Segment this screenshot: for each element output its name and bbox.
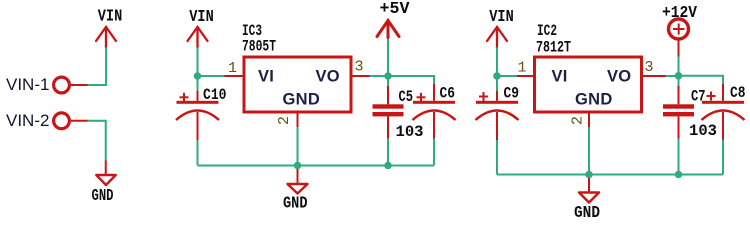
svg-text:3: 3	[355, 59, 364, 76]
svg-text:VIN: VIN	[189, 7, 214, 26]
capacitor C7 bottom plate	[663, 112, 694, 116]
svg-text:2: 2	[570, 116, 587, 125]
svg-text:103: 103	[396, 123, 424, 141]
capacitor C8 polarity plus	[707, 92, 716, 101]
wire IC2 pin 2 to ground rail	[588, 127, 590, 175]
svg-text:VO: VO	[316, 68, 340, 86]
junction node VIN / C9 / pin1	[493, 72, 501, 80]
capacitor C9 curved plate	[476, 111, 519, 121]
svg-text:VIN-2: VIN-2	[6, 111, 49, 130]
capacitor C7 lead upper	[678, 76, 680, 86]
ground flag (right) lead	[588, 178, 590, 193]
ground flag (middle) triangle	[288, 184, 308, 194]
svg-text:VIN: VIN	[98, 7, 123, 26]
svg-text:VIN-1: VIN-1	[6, 75, 49, 94]
svg-text:C9: C9	[504, 85, 520, 103]
ground flag (left) triangle	[96, 175, 116, 185]
capacitor C10 curved plate	[176, 111, 219, 121]
ground flag (left) lead	[105, 161, 107, 175]
capacitor C6 lead upper	[433, 84, 435, 101]
capacitor C6 curved plate	[413, 111, 456, 121]
wire node up to +12V flag	[678, 57, 680, 76]
svg-text:VIN: VIN	[489, 7, 514, 26]
svg-text:7805T: 7805T	[242, 38, 276, 56]
svg-text:C5: C5	[399, 88, 414, 106]
svg-text:GND: GND	[575, 91, 613, 109]
svg-text:+5V: +5V	[380, 0, 410, 18]
svg-text:3: 3	[645, 59, 654, 76]
capacitor C10 lead lower	[197, 112, 199, 140]
svg-text:2: 2	[276, 116, 293, 125]
wire node to C8 branch	[679, 76, 724, 84]
capacitor C10 top plate	[177, 101, 219, 104]
capacitor C7 top plate	[663, 104, 694, 108]
connector VIN-1 pin stub	[71, 84, 88, 86]
power flag +12V circle	[669, 19, 689, 39]
junction node pin2 / ground rail (right)	[585, 171, 593, 179]
IC3 voltage regulator box	[244, 57, 351, 112]
capacitor C9 polarity plus	[479, 92, 488, 101]
connector VIN-1 circle	[54, 77, 70, 93]
ground rail (right)	[497, 174, 723, 176]
svg-text:C8: C8	[730, 84, 746, 102]
svg-text:1: 1	[517, 60, 526, 77]
power flag VIN arrow (middle)	[188, 27, 208, 48]
capacitor C6 lead lower	[433, 112, 435, 139]
IC3 pin 3 stub	[351, 75, 370, 77]
wire VIN flag down to node (right)	[496, 48, 498, 77]
svg-text:+12V: +12V	[662, 3, 697, 22]
connector VIN-2 pin stub	[71, 120, 88, 122]
svg-text:GND: GND	[283, 91, 321, 109]
junction node pin2 / ground rail	[294, 162, 302, 170]
wire VIN flag down to node	[197, 48, 199, 77]
capacitor C6 top plate	[413, 101, 455, 104]
svg-text:C10: C10	[203, 86, 227, 104]
wire node up to +5V flag	[387, 38, 389, 77]
ground flag (right) triangle	[579, 193, 599, 203]
junction node VIN / C10 / pin1	[194, 72, 202, 80]
wire IC3 pin 2 to ground rail	[297, 127, 299, 166]
junction node +5V / C5 / C6	[384, 72, 392, 80]
capacitor C6 polarity plus	[417, 93, 426, 102]
wire pin 3 to +12V node	[666, 75, 679, 77]
capacitor C5 lead upper	[387, 76, 389, 86]
connector VIN-2 circle	[54, 113, 70, 129]
capacitor C5 lead lower	[387, 116, 389, 138]
power flag VIN arrow (left)	[96, 27, 116, 48]
svg-text:VI: VI	[552, 68, 568, 86]
svg-text:IC2: IC2	[537, 22, 557, 40]
capacitor C9 lead lower	[496, 112, 498, 140]
wire node to C6 branch	[388, 76, 434, 84]
wire VIN-1 to VIN flag	[87, 48, 106, 86]
svg-text:VI: VI	[258, 68, 274, 86]
capacitor C9 lead upper	[496, 76, 498, 91]
capacitor C5 bottom plate	[373, 112, 404, 116]
svg-text:GND: GND	[283, 194, 308, 213]
IC2 pin 3 stub	[642, 75, 666, 77]
capacitor C8 lead upper	[722, 84, 724, 101]
capacitor C10 polarity plus	[180, 93, 189, 102]
svg-text:7812T: 7812T	[536, 39, 571, 57]
capacitor C5 top plate	[373, 104, 404, 108]
wire pin 3 to +5V node	[370, 75, 389, 77]
svg-text:C6: C6	[440, 85, 456, 103]
IC2 voltage regulator box	[535, 57, 642, 112]
junction node C5 / ground rail	[384, 162, 392, 170]
power flag +12V lead	[678, 41, 680, 57]
wire VIN-2 to GND flag	[88, 121, 106, 161]
power flag +5V arrow	[377, 21, 399, 38]
IC2 pin 1 stub	[517, 75, 536, 77]
ground rail (middle)	[198, 165, 435, 167]
capacitor C8 curved plate	[702, 111, 745, 121]
capacitor C10 lead upper	[197, 76, 199, 91]
wire node to IC3 pin 1	[198, 75, 225, 77]
junction node +12V / C7 / C8	[675, 72, 683, 80]
power flag +12V plus	[673, 24, 685, 35]
svg-text:GND: GND	[574, 203, 600, 220]
IC3 pin 1 stub	[225, 75, 246, 77]
capacitor C8 top plate	[702, 101, 744, 104]
IC3 pin 2 stub	[297, 112, 299, 127]
svg-text:103: 103	[689, 122, 717, 140]
ground flag (middle) lead	[297, 169, 299, 184]
power flag VIN arrow (right)	[487, 27, 507, 48]
svg-text:VO: VO	[607, 68, 631, 86]
svg-text:GND: GND	[92, 186, 114, 205]
capacitor C8 lead lower	[722, 112, 724, 140]
junction node C7 / ground rail	[675, 171, 683, 179]
IC2 pin 2 stub	[588, 112, 590, 127]
capacitor C7 lead lower	[678, 116, 680, 138]
svg-text:1: 1	[228, 60, 237, 77]
capacitor C9 top plate	[476, 101, 518, 104]
wire node to IC2 pin 1	[497, 75, 517, 77]
